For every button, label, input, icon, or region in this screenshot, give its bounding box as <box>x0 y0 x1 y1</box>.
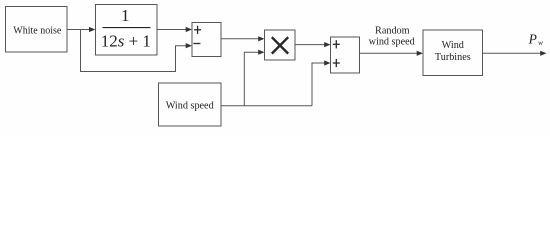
svg-text:Turbines: Turbines <box>435 52 471 63</box>
block B3 Wind Turbines <box>423 30 483 76</box>
multiplier block X <box>265 30 296 60</box>
svg-text:wind speed: wind speed <box>369 36 415 47</box>
wire W10: Wind Turbines output Pw <box>483 52 542 54</box>
summing junction S2 (plus/plus) <box>331 37 360 73</box>
block B4 Wind speed <box>159 83 222 126</box>
arrowhead A2 into S1 minus input <box>186 43 192 48</box>
arrowhead A6 into S2 bottom input <box>324 60 330 65</box>
summing junction S1 (plus/minus) <box>192 23 221 57</box>
svg-text:12s + 1: 12s + 1 <box>101 32 151 51</box>
svg-text:1: 1 <box>121 6 130 25</box>
arrowhead A1 into TF block <box>89 27 95 32</box>
wire W2: branch down from node at x=80.5 <box>81 30 187 72</box>
arrowhead A5 into multiplier bottom input <box>258 50 264 55</box>
arrowhead A8 into Wind Turbines <box>417 51 423 56</box>
svg-text:w: w <box>538 38 543 47</box>
svg-text:Wind: Wind <box>442 40 464 51</box>
arrowhead A7 into S2 top input <box>324 42 330 47</box>
arrowhead A3 into S1 plus input <box>186 27 192 32</box>
wire W9: S2 output to Wind Turbines <box>360 52 418 54</box>
svg-text:Random: Random <box>375 26 410 37</box>
wire W8: multiplier output to S2 top input <box>295 44 325 46</box>
wire W3: TF block to S1 plus input <box>157 29 187 31</box>
arrowhead A9 output arrow <box>540 51 546 56</box>
block B2 transfer function 1/(12s+1) <box>96 5 158 56</box>
block B1 White noise <box>6 7 68 53</box>
wire W1: White noise to TF block <box>67 29 90 31</box>
label Random wind speed <box>369 26 415 48</box>
wire W5: Wind speed output trunk <box>221 105 312 107</box>
wire W7: branch up to S2 bottom input <box>312 63 325 106</box>
svg-text:Wind speed: Wind speed <box>166 101 214 112</box>
svg-text:P: P <box>528 32 537 47</box>
wire W4: S1 output to multiplier top input <box>221 38 259 40</box>
svg-text:White noise: White noise <box>13 26 62 37</box>
label Pw output <box>528 32 543 48</box>
arrowhead A4 into multiplier top input <box>258 36 264 41</box>
wire W6: branch up to multiplier bottom input <box>244 52 259 106</box>
